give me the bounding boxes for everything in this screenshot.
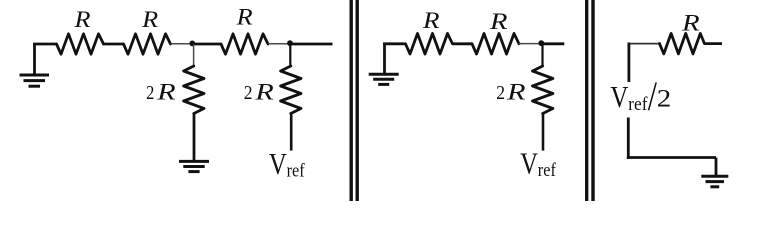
resistor R3 (panel 1, value R) bbox=[221, 34, 268, 54]
resistor R5 (panel 2, value R) bbox=[472, 34, 519, 55]
wire from ground to R4 bbox=[383, 42, 405, 45]
ground symbol (left of panel 2) bbox=[369, 43, 399, 85]
svg-text:R: R bbox=[681, 11, 700, 36]
ground symbol (panel 3) bbox=[701, 176, 728, 187]
wire bottom horizontal to ground bbox=[627, 156, 716, 159]
resistor R6 (panel 3, value R) bbox=[660, 33, 705, 54]
wire corner to R6 (thin lead) bbox=[629, 43, 660, 45]
svg-text:R: R bbox=[141, 7, 158, 32]
svg-text:R: R bbox=[422, 8, 440, 33]
wire node A to R3 bbox=[192, 43, 221, 46]
wire 2R down to ground bbox=[193, 114, 196, 162]
wire node C to right (output stub) bbox=[541, 42, 564, 45]
svg-text:V: V bbox=[269, 146, 287, 181]
wire left vertical (Vref/2 top) bbox=[628, 43, 631, 83]
node C (junction dot) bbox=[538, 40, 544, 46]
wire R5 to node C (thin lead) bbox=[519, 43, 540, 45]
svg-text:2: 2 bbox=[496, 82, 505, 104]
svg-text:V: V bbox=[610, 79, 628, 114]
wire R3 to node B (thin lead) bbox=[268, 43, 288, 45]
svg-text:2: 2 bbox=[146, 82, 154, 104]
resistor 2R (panel 2, vertical) bbox=[533, 66, 553, 114]
svg-text:R: R bbox=[489, 9, 508, 34]
wire R2 to node A (thin lead) bbox=[171, 43, 191, 45]
wire R6 right lead bbox=[705, 42, 723, 45]
svg-text:2: 2 bbox=[244, 82, 253, 104]
svg-text:R: R bbox=[156, 80, 176, 105]
svg-text:2: 2 bbox=[657, 85, 672, 112]
wire stub down to ground bbox=[715, 158, 718, 177]
wire 2R down to Vref terminal bbox=[542, 114, 545, 151]
wire 2R down to Vref terminal bbox=[290, 114, 293, 151]
wire node C down to 2R bbox=[541, 44, 543, 67]
wire R1 to R2 bbox=[104, 43, 125, 46]
wire node B to right (output stub) bbox=[290, 43, 333, 46]
svg-text:ref: ref bbox=[287, 161, 306, 181]
svg-text:V: V bbox=[520, 146, 538, 181]
resistor R1 (panel 1, value R) bbox=[57, 34, 104, 54]
wire node A down to 2R (thin lead) bbox=[193, 44, 195, 67]
node A (junction dot) bbox=[189, 41, 195, 47]
separator double bar 2 bbox=[587, 0, 593, 201]
svg-text:R: R bbox=[506, 80, 526, 105]
ground symbol (below branch 1 2R) bbox=[179, 161, 209, 171]
wire left vertical (Vref/2 bottom) bbox=[627, 118, 630, 159]
wire from ground to R1 bbox=[33, 43, 56, 46]
node B (junction dot) bbox=[287, 40, 293, 46]
separator double bar 1 bbox=[351, 0, 357, 201]
svg-text:R: R bbox=[235, 5, 252, 30]
ground symbol (left of panel 1) bbox=[20, 43, 50, 86]
resistor R4 (panel 2, value R) bbox=[406, 34, 453, 55]
svg-text:ref: ref bbox=[538, 161, 557, 181]
svg-text:ref: ref bbox=[628, 95, 648, 115]
resistor 2R (panel 1, branch 1, vertical) bbox=[184, 66, 204, 114]
wire R4 to R5 bbox=[453, 42, 473, 45]
wire node B down to 2R bbox=[289, 44, 291, 67]
resistor R2 (panel 1, value R) bbox=[124, 34, 171, 54]
svg-text:R: R bbox=[73, 7, 90, 32]
resistor 2R (panel 1, branch 2, vertical) bbox=[281, 66, 301, 114]
svg-text:R: R bbox=[254, 80, 274, 105]
